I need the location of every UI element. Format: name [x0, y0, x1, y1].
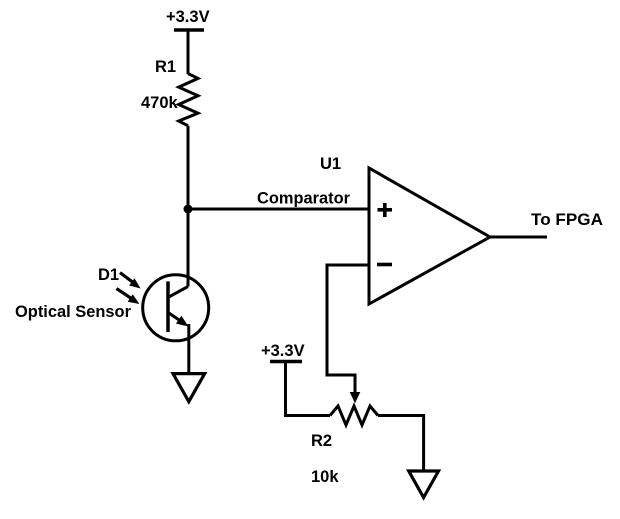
- svg-text:Optical Sensor: Optical Sensor: [15, 303, 132, 321]
- ground symbol (R2): [409, 471, 439, 498]
- svg-text:Comparator: Comparator: [257, 190, 351, 208]
- wire: node to comparator + input: [188, 208, 369, 211]
- light arrow 1 into D1: [120, 273, 133, 283]
- power rail bar +3.3V (top): [174, 28, 204, 32]
- svg-text:U1: U1: [320, 155, 341, 173]
- svg-text:+3.3V: +3.3V: [261, 342, 305, 360]
- phototransistor D1 circle: [143, 275, 209, 341]
- op-amp U1 triangle: [369, 168, 490, 304]
- power rail bar +3.3V (bottom): [270, 360, 302, 364]
- wire: emitter to ground: [187, 324, 190, 374]
- ground symbol (phototransistor): [173, 374, 205, 402]
- svg-text:470k: 470k: [141, 94, 179, 112]
- phototransistor emitter lead with arrow: [168, 313, 181, 322]
- light arrow 2 into D1: [117, 289, 132, 299]
- wire: node down to phototransistor collector: [187, 209, 190, 287]
- wire: +3.3V to R2 left terminal: [286, 362, 331, 416]
- wire: +3.3V bar to R1 top: [187, 30, 190, 74]
- svg-text:R1: R1: [155, 58, 176, 76]
- resistor R1 zigzag: [179, 74, 198, 126]
- wiper arrowhead onto R2: [350, 392, 361, 403]
- svg-text:To FPGA: To FPGA: [531, 211, 603, 229]
- phototransistor collector lead: [168, 287, 188, 298]
- op-amp - input symbol: [377, 263, 392, 267]
- svg-text:10k: 10k: [311, 468, 339, 486]
- node junction dot: [184, 205, 193, 214]
- potentiometer R2 zigzag: [330, 406, 378, 425]
- svg-text:D1: D1: [98, 266, 119, 284]
- wire: R2 right terminal to ground: [378, 416, 424, 472]
- svg-text:R2: R2: [311, 432, 332, 450]
- wire: R1 bottom to node: [187, 126, 190, 209]
- wire: inverting input to R2 wiper: [327, 265, 369, 394]
- phototransistor base bar: [166, 281, 170, 332]
- wire: op-amp output to FPGA: [490, 236, 547, 239]
- svg-text:+3.3V: +3.3V: [166, 8, 210, 26]
- op-amp + input symbol: [378, 203, 393, 217]
